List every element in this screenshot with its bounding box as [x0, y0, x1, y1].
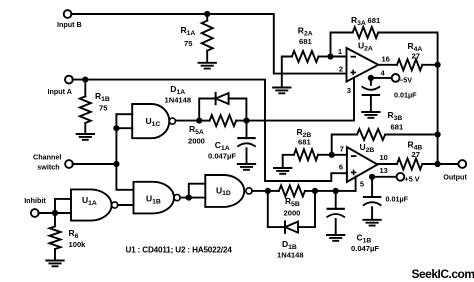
svg-text:3: 3 — [347, 86, 351, 95]
pin 1 label — [338, 47, 342, 56]
svg-text:Channel: Channel — [33, 153, 61, 162]
svg-text:SeekIC.com: SeekIC.com — [412, 267, 474, 281]
capacitor C1A 0.047uF — [208, 121, 256, 164]
node junction U1D output — [265, 188, 271, 194]
svg-text:1: 1 — [338, 47, 342, 56]
svg-text:1N4148: 1N4148 — [165, 96, 192, 105]
ground under R1B — [77, 134, 94, 140]
diode D1A 1N4148 (parallel with R5A, cathode left) — [165, 84, 247, 121]
ground under +5V cap — [363, 220, 380, 226]
svg-text:switch: switch — [37, 163, 59, 172]
pin 16 label — [382, 55, 390, 64]
svg-text:100k: 100k — [69, 240, 87, 249]
wire U1C output to R5A — [176, 120, 200, 122]
svg-text:5: 5 — [360, 180, 364, 189]
note U1/U2 part numbers — [126, 246, 233, 255]
wire enable line A from R5A to U2A pin 3 — [247, 78, 355, 121]
node junction pin1/R3A — [327, 53, 333, 59]
wire Inhibit to U1A inputs — [38, 199, 71, 213]
node Inhibit terminal — [24, 196, 46, 217]
svg-text:681: 681 — [299, 37, 312, 46]
wire -5V pin 4 — [371, 77, 392, 79]
svg-text:13: 13 — [380, 166, 388, 175]
svg-text:75: 75 — [99, 104, 108, 113]
wire U2A pin 1 — [331, 56, 347, 58]
wire channel switch to vertical — [73, 163, 117, 165]
svg-text:+5 V: +5 V — [405, 175, 420, 184]
svg-text:75: 75 — [184, 39, 193, 48]
svg-text:681: 681 — [298, 138, 311, 147]
gate U1D (CD4011 NAND) — [205, 175, 252, 207]
node junction U2A output bus — [435, 62, 441, 68]
node junction R1A on Input B rail — [204, 11, 210, 17]
resistor R6 100k — [50, 213, 87, 260]
node Input A terminal — [48, 76, 73, 96]
capacitor 0.01uF on -5V — [362, 78, 417, 112]
svg-text:Input A: Input A — [48, 87, 72, 96]
pin 3 label — [347, 86, 351, 95]
svg-text:Inhibit: Inhibit — [24, 196, 46, 205]
resistor R1B 75 — [80, 80, 110, 134]
resistor R5A 2000 — [188, 115, 247, 145]
watermark SeekIC.com — [412, 267, 474, 281]
node junction pin7/R3B — [329, 152, 335, 158]
diode D1B 1N4148 (cathode left) — [268, 191, 315, 260]
node junction Inhibit / R6 — [52, 210, 58, 216]
capacitor 0.01uF on +5V — [363, 177, 409, 220]
svg-text:10: 10 — [380, 153, 388, 162]
svg-text:7: 7 — [340, 145, 344, 154]
svg-text:0.01µF: 0.01µF — [394, 91, 417, 100]
wire U1A output to U1B input — [118, 203, 134, 206]
svg-text:−5V: −5V — [399, 76, 412, 85]
wire U2B pin 7 — [332, 154, 347, 156]
svg-text:27: 27 — [412, 150, 420, 159]
resistor R2B 681 with grounded end — [283, 127, 332, 168]
node junction R1B on Input A rail — [82, 77, 88, 83]
node junction at U1C lower input — [113, 125, 119, 131]
svg-text:2000: 2000 — [284, 209, 301, 218]
svg-text:0.047µF: 0.047µF — [208, 152, 236, 161]
svg-text:1N4148: 1N4148 — [277, 251, 304, 260]
pin 10 label — [380, 153, 388, 162]
node junction C1B — [333, 188, 339, 194]
gate U1B (CD4011 NAND) — [134, 182, 181, 214]
ground under C1B — [327, 235, 344, 241]
pin 13 label — [380, 166, 388, 175]
wire U1B output to U1D inputs — [180, 184, 205, 198]
svg-text:0.01µF: 0.01µF — [386, 195, 409, 204]
pin 2 label — [339, 64, 343, 73]
svg-text:Input B: Input B — [57, 20, 82, 29]
wire Input A rail, down at x=265 and over to U2B pin 6 — [73, 80, 347, 181]
wire to Output terminal — [438, 163, 459, 165]
wire U2B pin 5 enable — [355, 177, 357, 191]
node Channel switch terminal — [33, 153, 73, 172]
ground under C1A — [238, 164, 255, 170]
svg-text:U1 : CD4011; U2 : HA5022/24: U1 : CD4011; U2 : HA5022/24 — [126, 246, 233, 255]
capacitor C1B 0.047uF — [327, 191, 380, 253]
resistor R1A 75 — [181, 14, 213, 62]
resistor R3B 681 feedback — [332, 110, 438, 155]
svg-text:681: 681 — [368, 16, 381, 25]
wire Input B top rail to U2A pin 2 — [71, 14, 346, 74]
svg-text:2: 2 — [339, 64, 343, 73]
pin 5 label — [360, 180, 364, 189]
resistor R5B 2000 — [279, 185, 305, 217]
resistor R4A 27 output — [378, 41, 437, 70]
gate U1C (CD4011 NAND) — [132, 104, 175, 138]
node junction D1B right — [312, 188, 318, 194]
node junction R5A right — [243, 118, 249, 124]
svg-text:0.047µF: 0.047µF — [351, 244, 379, 253]
node junction R3B bus — [435, 131, 441, 137]
pin 6 label — [339, 163, 343, 172]
resistor R4B 27 output — [378, 140, 438, 170]
node junction pin 4 decoupling — [368, 75, 374, 81]
node Output terminal — [443, 160, 467, 181]
wire channel-switch vertical to U1C inputs and U1B input — [116, 114, 133, 190]
ground under R1A — [199, 63, 216, 69]
ground under R6 — [46, 261, 63, 267]
svg-text:2000: 2000 — [188, 137, 205, 146]
ground under -5V cap — [362, 112, 379, 118]
node +5V terminal — [397, 173, 420, 184]
node junction R5A left — [196, 118, 202, 124]
svg-text:6: 6 — [339, 163, 343, 172]
svg-text:27: 27 — [412, 52, 420, 61]
node junction channel switch — [113, 161, 119, 167]
svg-text:16: 16 — [382, 55, 390, 64]
pin 4 label — [381, 69, 386, 78]
op-amp U2B (HA5022) — [347, 142, 378, 182]
ground under R2A — [273, 88, 290, 94]
wire right output bus — [437, 65, 439, 164]
wire R5B enable line — [268, 190, 356, 192]
resistor R2A 681 with grounded end — [282, 26, 331, 88]
node Input B terminal — [57, 10, 82, 29]
wire U1C input stubs — [116, 114, 132, 128]
ground under R2B — [274, 168, 291, 174]
node junction pin 13 decoupling — [369, 174, 375, 180]
gate U1A (CD4011 NAND) — [71, 189, 118, 220]
node junction at U1D input — [186, 195, 192, 201]
wire U1D output to R5B line — [252, 190, 268, 192]
wire +5V pin 13 — [372, 176, 397, 178]
node junction output bus — [435, 161, 441, 167]
op-amp U2A (HA5022) — [347, 41, 379, 82]
pin 7 label — [340, 145, 344, 154]
node -5V terminal — [392, 74, 412, 85]
resistor R3A 681 feedback — [331, 15, 438, 65]
svg-text:Output: Output — [443, 173, 467, 182]
svg-text:681: 681 — [391, 123, 404, 132]
